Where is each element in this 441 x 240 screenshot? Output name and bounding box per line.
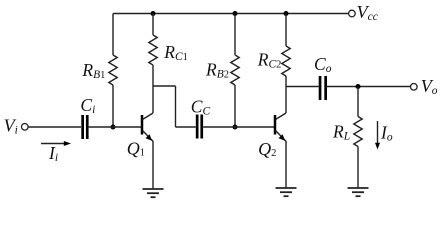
wire Q2 emitter down bbox=[285, 141, 287, 188]
current arrow Io bbox=[377, 121, 379, 144]
wire down to CC level bbox=[175, 86, 177, 127]
collector lead bbox=[276, 113, 287, 120]
wire Vi to Ci bbox=[28, 126, 81, 128]
wire to CC left plate bbox=[176, 126, 196, 128]
resistor RC2 bbox=[282, 46, 290, 76]
current arrow Ii bbox=[41, 143, 65, 145]
ground Q2 bbox=[276, 188, 297, 196]
wire collector node right bbox=[153, 85, 176, 87]
node dot rail/RC1 bbox=[151, 11, 156, 16]
node dot base Q1 / RB1 bbox=[111, 125, 116, 130]
transistor Q1 bbox=[142, 113, 153, 141]
emitter lead bbox=[276, 131, 287, 142]
wire RC2 to output node bbox=[285, 76, 287, 87]
capacitor Ci bbox=[81, 115, 84, 139]
capacitor CC bbox=[196, 115, 199, 139]
emitter lead bbox=[143, 131, 154, 142]
node dot base Q2 / RB2 bbox=[233, 125, 238, 130]
base bar bbox=[141, 115, 144, 135]
base bar bbox=[274, 115, 277, 135]
wire Q1 collector up bbox=[152, 86, 154, 113]
wire RB2 to base node Q2 bbox=[234, 85, 236, 127]
input terminal Vi bbox=[22, 124, 29, 131]
node dot rail/RC2 bbox=[284, 11, 289, 16]
wire Vcc rail to RC2 bbox=[285, 14, 287, 47]
wire Ci to Q1 base bbox=[89, 126, 142, 128]
wire RL to ground bbox=[357, 147, 359, 189]
capacitor Co bbox=[319, 76, 322, 100]
transistor Q2 bbox=[275, 113, 286, 141]
wire Co to Vo bbox=[327, 86, 410, 88]
resistor RC1 bbox=[149, 35, 157, 65]
wire output node to Co bbox=[286, 86, 319, 88]
wire Vcc rail to RB1 bbox=[112, 14, 114, 56]
wire Q1 emitter down bbox=[152, 141, 154, 189]
wire RB1 to input node bbox=[112, 85, 114, 127]
ground RL bbox=[348, 188, 369, 196]
wire RC1 to collector node bbox=[152, 65, 154, 86]
wire Q2 collector up bbox=[285, 87, 287, 114]
resistor RB2 bbox=[231, 55, 239, 85]
wire Vcc rail to RC1 bbox=[152, 14, 154, 36]
wire top Vcc rail bbox=[113, 13, 348, 15]
wire CC to Q2 base bbox=[203, 126, 274, 128]
node dot rail/RB2 bbox=[233, 11, 238, 16]
wire RL branch down bbox=[357, 87, 359, 117]
wire Vcc rail to RB2 bbox=[234, 14, 236, 56]
output terminal Vo bbox=[411, 84, 418, 91]
ground Q1 bbox=[143, 189, 164, 197]
node dot RL branch bbox=[356, 84, 361, 89]
resistor RL bbox=[354, 117, 362, 147]
resistor RB1 bbox=[109, 55, 117, 85]
Vcc terminal bbox=[349, 10, 356, 17]
collector lead bbox=[143, 113, 154, 120]
